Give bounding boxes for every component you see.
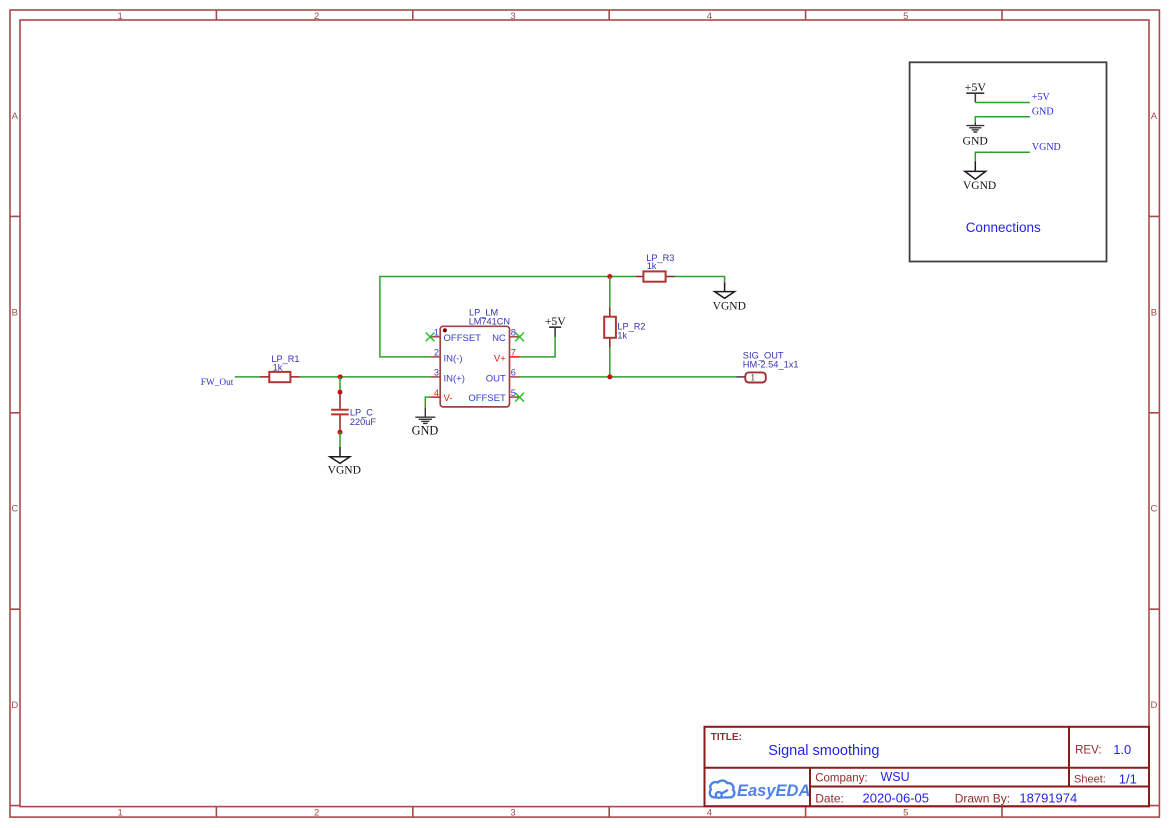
svg-text:5: 5 bbox=[903, 808, 908, 819]
svg-text:VGND: VGND bbox=[328, 464, 361, 476]
svg-text:TITLE:: TITLE: bbox=[711, 732, 742, 743]
svg-text:8: 8 bbox=[511, 328, 516, 338]
svg-text:Date:: Date: bbox=[815, 791, 844, 805]
wire junction to capacitor bbox=[339, 377, 341, 392]
wire feedback pin2 to top rail bbox=[380, 277, 636, 357]
svg-text:WSU: WSU bbox=[881, 770, 910, 784]
svg-text:B: B bbox=[1151, 307, 1157, 318]
svg-text:1k: 1k bbox=[647, 261, 657, 271]
ground symbol GND (op-amp) bbox=[415, 407, 435, 423]
wire net VGND bbox=[975, 152, 1030, 161]
title block bbox=[705, 727, 1150, 806]
svg-text:VGND: VGND bbox=[1032, 142, 1061, 153]
resistor LP_R3 bbox=[636, 271, 675, 281]
svg-text:6: 6 bbox=[511, 368, 516, 378]
svg-text:18791974: 18791974 bbox=[1019, 790, 1077, 805]
power flag +5V (connections box) bbox=[965, 80, 987, 102]
power symbol VGND (below capacitor) bbox=[330, 447, 350, 463]
connections group box bbox=[910, 62, 1107, 261]
svg-text:3: 3 bbox=[510, 808, 515, 819]
svg-text:V-: V- bbox=[444, 393, 453, 404]
op-amp U1 LP_LM LM741CN body bbox=[440, 326, 509, 407]
wire pin4 to GND bbox=[425, 397, 430, 407]
svg-text:NC: NC bbox=[492, 333, 506, 344]
svg-text:5: 5 bbox=[511, 388, 516, 398]
svg-text:1: 1 bbox=[434, 328, 439, 338]
pin 1 marker dot bbox=[443, 328, 447, 332]
svg-text:5: 5 bbox=[903, 11, 908, 22]
pin 1 OFFSET stub bbox=[430, 336, 440, 338]
wire net GND bbox=[975, 117, 1030, 122]
svg-text:V+: V+ bbox=[494, 353, 506, 364]
svg-text:A: A bbox=[1151, 111, 1158, 122]
junction node OUT/R2 bbox=[607, 374, 612, 379]
wire OUT to SIG_OUT bbox=[520, 376, 737, 378]
power symbol VGND (connections box) bbox=[965, 162, 986, 180]
svg-text:REV:: REV: bbox=[1075, 745, 1101, 757]
svg-text:OUT: OUT bbox=[486, 373, 506, 384]
wire R3 to VGND bbox=[675, 277, 725, 283]
svg-text:LM741CN: LM741CN bbox=[469, 317, 510, 327]
pin 3 IN(+) stub bbox=[430, 376, 440, 378]
svg-text:+5V: +5V bbox=[1032, 92, 1051, 103]
svg-text:1k: 1k bbox=[617, 331, 627, 341]
resistor LP_R2 bbox=[604, 307, 616, 348]
svg-text:GND: GND bbox=[1032, 106, 1054, 117]
svg-text:3: 3 bbox=[510, 11, 515, 22]
junction node at R1/C bbox=[338, 374, 343, 379]
svg-text:Signal smoothing: Signal smoothing bbox=[768, 743, 879, 759]
wire capacitor to VGND bbox=[339, 432, 341, 447]
power flag +5V (op-amp) bbox=[545, 315, 566, 337]
svg-text:1/1: 1/1 bbox=[1119, 771, 1137, 786]
svg-text:1: 1 bbox=[118, 11, 123, 22]
svg-text:2: 2 bbox=[314, 11, 319, 22]
svg-text:D: D bbox=[1150, 700, 1157, 711]
svg-text:7: 7 bbox=[511, 348, 516, 358]
svg-text:OFFSET: OFFSET bbox=[444, 333, 482, 344]
connector SIG_OUT HM-2.54_1x1 pin 1 bbox=[736, 372, 766, 383]
svg-text:D: D bbox=[11, 700, 18, 711]
no-connect X pin 8 bbox=[515, 333, 524, 342]
wire R2 to out rail bbox=[609, 348, 611, 377]
junction node feedback/R2 bbox=[607, 274, 612, 279]
pin 5 OFFSET stub bbox=[510, 396, 520, 398]
svg-text:OFFSET: OFFSET bbox=[468, 393, 506, 404]
svg-text:EasyEDA: EasyEDA bbox=[737, 782, 810, 800]
svg-text:2020-06-05: 2020-06-05 bbox=[863, 790, 930, 805]
svg-text:1k: 1k bbox=[273, 363, 283, 373]
svg-text:Company:: Company: bbox=[815, 773, 867, 785]
svg-text:4: 4 bbox=[707, 808, 712, 819]
wire net +5V bbox=[975, 102, 1030, 104]
svg-text:C: C bbox=[1150, 504, 1157, 515]
svg-text:+5V: +5V bbox=[965, 80, 987, 94]
svg-text:A: A bbox=[12, 111, 19, 122]
svg-text:Sheet:: Sheet: bbox=[1074, 773, 1106, 785]
pin 8 NC stub bbox=[510, 336, 520, 338]
pin 7 V+ stub (power) bbox=[510, 356, 520, 358]
ground symbol GND (connections box) bbox=[966, 122, 984, 132]
wire pin7 to +5V bbox=[520, 337, 556, 357]
svg-text:IN(+): IN(+) bbox=[444, 373, 465, 384]
svg-text:1.0: 1.0 bbox=[1113, 742, 1131, 757]
wire FW_Out to R1 bbox=[235, 376, 260, 378]
wire R1 to op-amp IN(+) bbox=[300, 376, 431, 378]
svg-text:2: 2 bbox=[434, 348, 439, 358]
EasyEDA logo bbox=[710, 781, 735, 798]
svg-text:Connections: Connections bbox=[966, 220, 1041, 235]
wire top rail to R2 bbox=[609, 277, 611, 308]
svg-text:VGND: VGND bbox=[713, 300, 746, 312]
svg-text:3: 3 bbox=[434, 368, 439, 378]
no-connect X pin 1 bbox=[426, 333, 435, 342]
resistor LP_R1 bbox=[260, 372, 300, 382]
svg-text:4: 4 bbox=[434, 388, 439, 398]
pin 6 OUT stub bbox=[510, 376, 520, 378]
svg-text:VGND: VGND bbox=[963, 180, 996, 192]
svg-text:C: C bbox=[11, 504, 18, 515]
svg-text:1: 1 bbox=[118, 808, 123, 819]
svg-text:B: B bbox=[12, 307, 18, 318]
svg-text:Drawn By:: Drawn By: bbox=[955, 791, 1010, 805]
svg-text:GND: GND bbox=[963, 135, 988, 148]
svg-text:HM-2.54_1x1: HM-2.54_1x1 bbox=[743, 360, 799, 370]
capacitor LP_C bbox=[331, 390, 349, 435]
svg-text:220uF: 220uF bbox=[350, 417, 376, 427]
svg-text:IN(-): IN(-) bbox=[444, 353, 463, 364]
no-connect X pin 5 bbox=[515, 393, 524, 402]
pin 2 IN(-) stub bbox=[430, 356, 440, 358]
svg-text:2: 2 bbox=[314, 808, 319, 819]
pin 4 V- stub (power) bbox=[430, 396, 440, 398]
svg-text:1: 1 bbox=[750, 374, 755, 384]
svg-text:4: 4 bbox=[707, 11, 712, 22]
svg-text:FW_Out: FW_Out bbox=[201, 378, 234, 388]
power symbol VGND (right of R3) bbox=[715, 282, 735, 298]
svg-text:GND: GND bbox=[412, 424, 439, 438]
svg-text:+5V: +5V bbox=[545, 315, 566, 328]
